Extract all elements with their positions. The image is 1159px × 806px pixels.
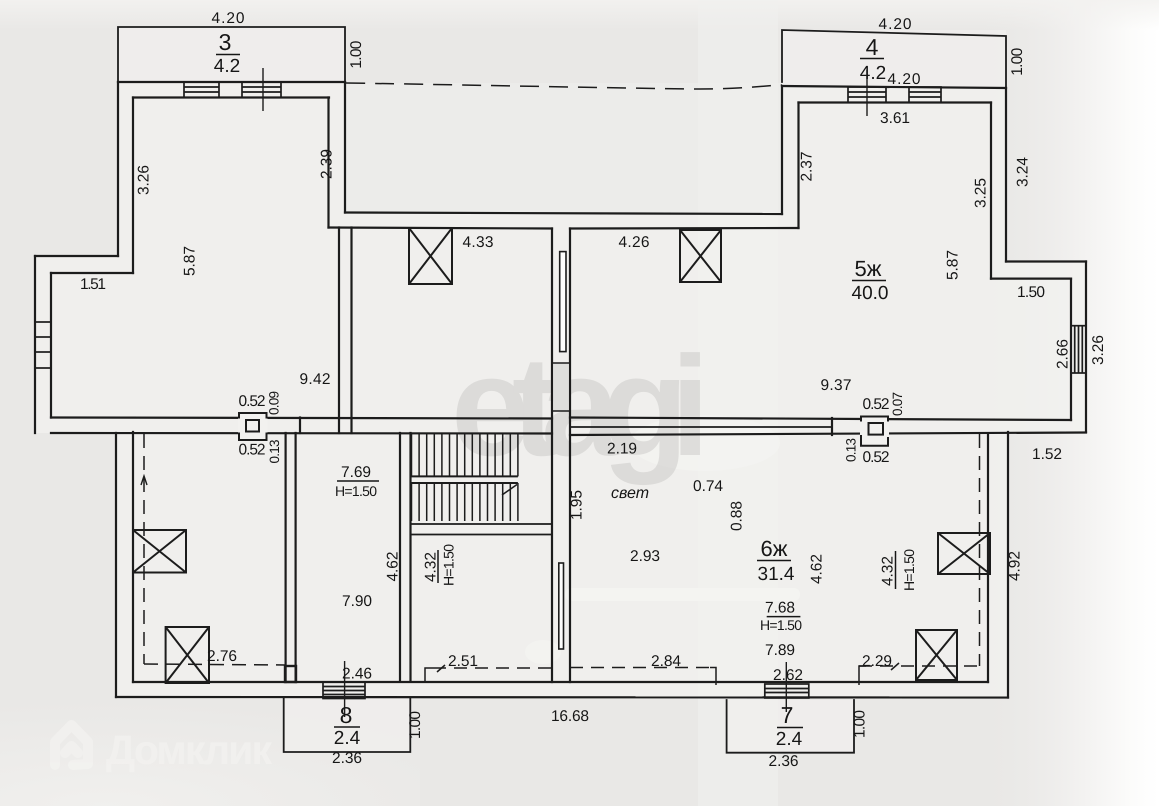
wall left step outer horizontal <box>35 255 118 257</box>
tick bottom-left window <box>344 661 346 717</box>
wall notch left inner vertical <box>327 98 329 228</box>
bottom wall inner line <box>133 681 988 683</box>
svg-text:4.20: 4.20 <box>212 10 245 27</box>
6zh dashed horizontal 2.84 <box>570 667 710 669</box>
white bloom patch upper right of 6zh room <box>630 415 780 471</box>
balcony 3 outline (top left) <box>118 27 345 82</box>
roof window box B6 <box>916 630 957 680</box>
wall left step inner vertical <box>132 98 134 274</box>
balcony 8 outline (bottom left) <box>284 699 411 753</box>
svg-text:1.50: 1.50 <box>1017 284 1045 301</box>
svg-text:1.00: 1.00 <box>348 40 365 68</box>
wall right step inner horizontal <box>991 278 1071 280</box>
svg-text:4: 4 <box>866 34 879 60</box>
mid wall middle line right unit <box>570 426 832 428</box>
wall top-right inner <box>799 101 992 103</box>
svg-text:4.92: 4.92 <box>1007 551 1024 581</box>
svg-text:0.52: 0.52 <box>863 449 890 466</box>
svg-text:2.19: 2.19 <box>607 441 637 458</box>
pier at bottom of room A wall <box>285 666 296 682</box>
door jamb left unit <box>299 418 301 434</box>
4.32 left fraction bar <box>437 550 439 583</box>
svg-text:9.37: 9.37 <box>821 377 852 394</box>
svg-text:0.88: 0.88 <box>729 501 746 531</box>
right lower inner wall vertical <box>987 434 989 682</box>
svg-text:9.42: 9.42 <box>300 371 331 388</box>
svg-text:2.4: 2.4 <box>334 728 361 749</box>
svg-text:2.76: 2.76 <box>207 648 237 665</box>
stairs <box>412 434 518 522</box>
wall notch right outer vertical <box>781 86 783 214</box>
white scan streak in 6zh room <box>565 588 800 601</box>
landing line below stairs <box>411 523 552 525</box>
wall notch left outer vertical <box>344 82 346 213</box>
window W1 top-left a <box>184 82 219 98</box>
window W5 top-right b <box>909 87 941 103</box>
wall left step inner horizontal <box>51 272 133 274</box>
party wall gray fill segment <box>553 363 569 411</box>
party wall tick lower <box>552 410 570 412</box>
stair rail lines <box>412 475 518 477</box>
svg-text:2.36: 2.36 <box>769 753 799 770</box>
party wall tick upper <box>552 362 570 364</box>
left lower outer wall vertical <box>115 433 117 697</box>
window W7 bottom left <box>323 682 365 699</box>
svg-text:4.20: 4.20 <box>879 16 912 33</box>
window W8 bottom right <box>765 684 809 698</box>
svg-text:2.51: 2.51 <box>448 653 478 670</box>
window W6 right wall <box>1071 326 1086 373</box>
roof window box B3 <box>133 530 186 573</box>
svg-text:5.87: 5.87 <box>945 250 962 280</box>
svg-text:1.00: 1.00 <box>1009 47 1026 75</box>
svg-text:1.52: 1.52 <box>1032 446 1062 463</box>
svg-text:etagi: etagi <box>451 327 707 486</box>
room A dashed vertical <box>143 434 145 664</box>
wall left step outer vertical <box>117 82 119 256</box>
svg-text:4.32: 4.32 <box>880 556 897 586</box>
svg-text:0.52: 0.52 <box>239 393 266 410</box>
window W2 top-left b <box>242 82 281 98</box>
svg-text:2.37: 2.37 <box>799 152 816 182</box>
mid wall top line left unit <box>51 418 552 419</box>
right lower outer wall vertical <box>1007 432 1009 698</box>
room A right wall pair <box>285 433 287 682</box>
chimney block left <box>238 413 268 440</box>
room A left wall inner <box>132 432 134 682</box>
room C dash arrow <box>437 665 445 672</box>
svg-text:3.26: 3.26 <box>1090 335 1107 365</box>
balcony 4 light fill <box>782 30 1006 87</box>
svg-text:40.0: 40.0 <box>852 283 889 304</box>
svg-text:H=1.50: H=1.50 <box>441 544 457 586</box>
svg-text:H=1.50: H=1.50 <box>901 549 917 591</box>
svg-text:3.25: 3.25 <box>973 178 990 208</box>
dimension tick lines <box>263 68 867 717</box>
door jamb right unit <box>831 418 833 435</box>
party wall right line <box>569 229 571 683</box>
wall notch bottom outer horizontal <box>345 213 782 215</box>
6zh dashed horizontal 2.29 <box>859 665 980 667</box>
balcony 3 light fill <box>118 27 345 82</box>
svg-text:0.13: 0.13 <box>844 438 859 462</box>
svg-text:4.33: 4.33 <box>463 234 494 251</box>
wall right outer vertical <box>1085 262 1087 433</box>
svg-text:2.62: 2.62 <box>773 667 803 684</box>
roof window box B2 <box>680 230 721 282</box>
party wall left line <box>551 229 553 683</box>
wall notch bottom inner right <box>570 227 799 230</box>
room C dash corner bracket <box>425 668 433 682</box>
svg-text:Домклик: Домклик <box>106 727 272 773</box>
notch area light tone <box>346 83 782 213</box>
wall top-left outer <box>118 81 345 83</box>
wall right inner vertical <box>1070 279 1072 420</box>
svg-text:0.52: 0.52 <box>863 396 890 413</box>
svg-text:31.4: 31.4 <box>758 564 795 585</box>
svg-text:4.62: 4.62 <box>809 554 826 584</box>
roof window box B1 <box>409 228 452 284</box>
balcony 4 outline (top right) <box>782 30 1006 88</box>
7.69 underline <box>337 480 379 482</box>
svg-text:2.29: 2.29 <box>862 653 892 670</box>
white bloom on party wall <box>525 640 561 664</box>
room C dashed horizontal 2.51 <box>433 667 552 669</box>
svg-text:3.61: 3.61 <box>880 110 910 127</box>
room 7 fraction bar <box>777 727 803 729</box>
wall hall divider left pair <box>338 228 340 434</box>
svg-text:7.90: 7.90 <box>342 593 372 610</box>
wall top-right outer <box>782 86 1006 88</box>
central vertical scanner light band <box>698 0 778 806</box>
bottom wall outer line <box>116 696 1008 699</box>
bottom left light corner <box>0 0 1 1</box>
svg-text:2.4: 2.4 <box>776 729 803 750</box>
window W3 left wall <box>35 322 51 368</box>
mid wall bottom line left unit <box>51 432 552 435</box>
balcony 7 outline (bottom right) <box>727 700 854 753</box>
room A dashed horizontal 2.76 <box>144 664 285 665</box>
svg-text:4.26: 4.26 <box>619 234 650 251</box>
svg-text:1.51: 1.51 <box>80 276 106 293</box>
room B right wall pair (stairs left) <box>399 433 401 680</box>
roof window box B4 <box>166 627 209 683</box>
svg-text:6ж: 6ж <box>761 536 788 561</box>
svg-text:16.68: 16.68 <box>551 708 589 725</box>
svg-text:3.24: 3.24 <box>1015 157 1032 187</box>
svg-text:2.84: 2.84 <box>651 653 681 670</box>
svg-text:2.39: 2.39 <box>319 149 336 179</box>
party wall shaft slot lower <box>559 563 564 649</box>
stair flight 2 treads <box>412 483 518 521</box>
svg-text:2.93: 2.93 <box>630 548 660 565</box>
svg-text:2.66: 2.66 <box>1055 339 1072 369</box>
wall left outer vertical <box>34 256 36 433</box>
balcony 8 light fill <box>284 699 411 753</box>
svg-text:2.46: 2.46 <box>342 666 372 683</box>
roof window box B5 <box>938 533 990 574</box>
watermark Domklik house icon <box>55 725 88 765</box>
mid wall bottom line right unit <box>570 433 1086 436</box>
6zh dash corner bracket left <box>710 668 716 686</box>
balcony 7 light fill <box>727 700 854 753</box>
room 8 fraction bar <box>334 726 360 728</box>
room 5zh fraction bar <box>852 280 886 282</box>
svg-text:0.09: 0.09 <box>267 391 282 415</box>
windows <box>35 82 1086 699</box>
mid wall top line right unit <box>570 418 1071 421</box>
room 4 fraction bar <box>860 58 884 60</box>
svg-text:0.74: 0.74 <box>693 478 723 495</box>
roof ridge dashed line <box>346 83 782 89</box>
svg-text:8: 8 <box>340 702 353 728</box>
6zh dashed vertical <box>979 434 981 666</box>
svg-text:H=1.50: H=1.50 <box>335 483 377 499</box>
svg-text:1.00: 1.00 <box>852 710 869 738</box>
right page fade to white <box>980 0 1159 806</box>
svg-text:4.62: 4.62 <box>385 552 402 582</box>
wall notch right inner vertical <box>797 103 799 229</box>
wall left inner vertical <box>50 273 52 418</box>
svg-text:7.89: 7.89 <box>765 642 795 659</box>
svg-text:3: 3 <box>219 29 232 55</box>
svg-text:0.13: 0.13 <box>267 440 282 464</box>
svg-text:1.00: 1.00 <box>407 711 424 739</box>
party wall shaft slot upper <box>560 252 566 352</box>
dashed lines <box>141 83 980 685</box>
room 6zh fraction bar <box>757 560 791 562</box>
svg-text:7.69: 7.69 <box>341 464 371 481</box>
room 3 fraction bar <box>216 54 240 56</box>
tick top-left window <box>262 68 264 111</box>
tick top-right window <box>866 70 868 116</box>
top light band <box>0 0 1159 30</box>
svg-text:0.52: 0.52 <box>239 442 266 459</box>
chimney block right <box>860 417 889 446</box>
building footprint light fill <box>35 82 1086 698</box>
svg-text:4.2: 4.2 <box>860 63 886 84</box>
4.32 right fraction bar <box>895 551 897 589</box>
svg-text:0.07: 0.07 <box>890 392 905 416</box>
6zh dash arrow <box>891 663 899 670</box>
svg-text:4.2: 4.2 <box>214 56 240 77</box>
wall right step outer horizontal <box>1006 260 1086 262</box>
svg-text:3.26: 3.26 <box>136 165 153 195</box>
stair direction mark <box>502 485 517 496</box>
svg-text:5.87: 5.87 <box>182 246 199 276</box>
room A dash arrow <box>141 476 147 485</box>
svg-text:4.32: 4.32 <box>423 552 440 582</box>
7.68 underline <box>767 616 801 618</box>
wall notch bottom inner left <box>329 228 553 229</box>
svg-text:7.68: 7.68 <box>765 600 795 617</box>
window W4 top-right a <box>848 87 886 103</box>
wall top-left inner <box>133 96 329 98</box>
svg-text:5ж: 5ж <box>855 256 882 281</box>
svg-text:1.95: 1.95 <box>569 490 586 520</box>
wall right step outer vertical <box>1005 88 1007 262</box>
svg-text:2.36: 2.36 <box>332 750 362 767</box>
svg-text:H=1.50: H=1.50 <box>760 617 802 633</box>
tick bottom-right window <box>785 662 787 712</box>
svg-text:7: 7 <box>781 702 794 728</box>
room C top wall line <box>411 534 552 536</box>
stair flight 1 treads <box>412 434 518 477</box>
svg-text:4.20: 4.20 <box>888 71 921 88</box>
wall right step inner vertical <box>990 103 992 279</box>
svg-text:свет: свет <box>611 485 649 502</box>
6zh dash corner bracket right <box>859 666 866 685</box>
